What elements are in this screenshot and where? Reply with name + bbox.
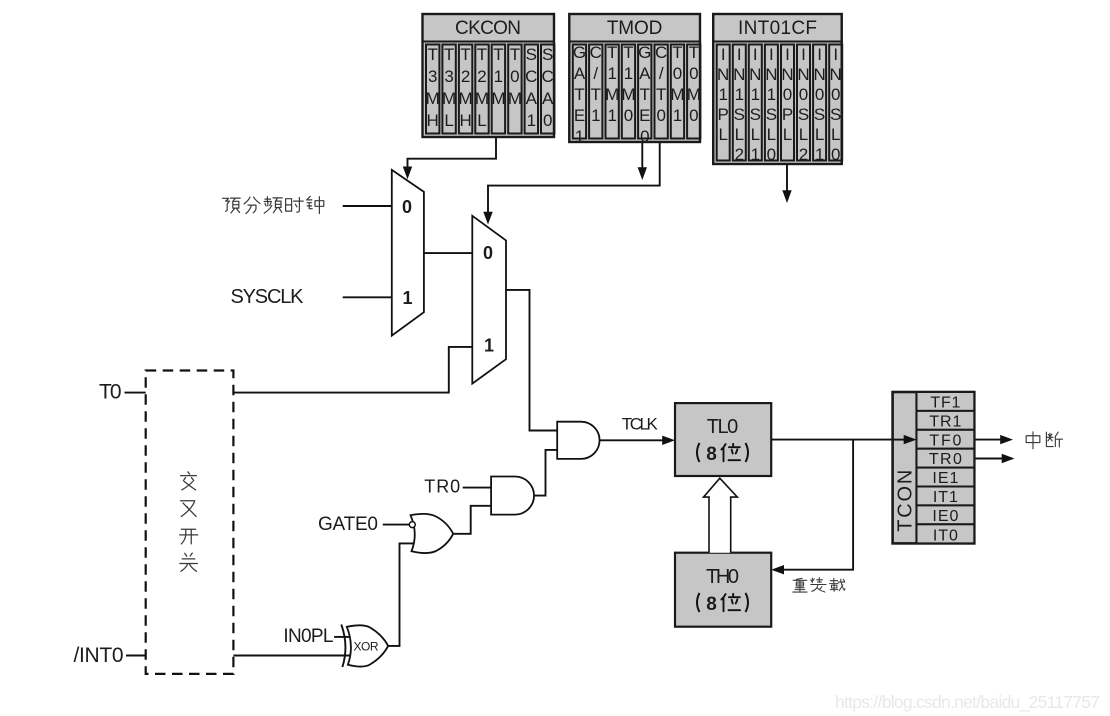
or gate U2 (inverted GATE0 input bubble) xyxy=(411,514,454,553)
wire mux2 out to AND2 top input xyxy=(506,290,557,431)
wire 预分频时钟 to mux1 input 0 xyxy=(343,205,392,207)
svg-text:IN0PL: IN0PL xyxy=(283,626,333,647)
wire T0 from label to crossbar xyxy=(125,392,146,394)
register INT01CF xyxy=(713,14,842,164)
hollow reload arrow TH0 to TL0 xyxy=(704,478,738,553)
wire CKCON to mux1 select xyxy=(408,137,497,168)
mux M2 (counter/timer select, inputs 0/1) xyxy=(472,216,506,384)
svg-text:TMOD: TMOD xyxy=(607,18,663,39)
register TMOD xyxy=(569,14,701,146)
wire TR0 output arrow xyxy=(974,458,1002,460)
svg-text:INT01CF: INT01CF xyxy=(738,18,817,39)
svg-text:GATE1: GATE1 xyxy=(573,43,586,146)
wire XOR out to OR input xyxy=(388,543,413,646)
svg-text:IE0: IE0 xyxy=(932,508,958,525)
svg-text:1: 1 xyxy=(484,336,494,356)
register block TH0 (8-bit) xyxy=(675,553,771,627)
wire /INT0 from crossbar to XOR input xyxy=(233,655,350,657)
svg-text:TR0: TR0 xyxy=(424,477,460,497)
xor gate U1 (XOR) xyxy=(347,625,388,666)
crossbar vertical label 交叉开关 xyxy=(181,472,197,490)
and gate U3 xyxy=(491,477,534,515)
mux M1 (clock select, inputs 0/1) xyxy=(392,170,424,336)
wire IN0PL to XOR input xyxy=(334,636,350,638)
wire INT01CF dangling arrow xyxy=(786,164,788,191)
svg-text:XOR: XOR xyxy=(354,640,379,654)
svg-text:TL0: TL0 xyxy=(707,416,739,438)
wire /INT0 from label to crossbar xyxy=(126,655,146,657)
wire TMOD dangling select arrow xyxy=(641,142,643,168)
register block TL0 (8-bit) xyxy=(675,403,771,476)
svg-text:0: 0 xyxy=(483,243,493,263)
svg-text:https://blog.csdn.net/baidu_25: https://blog.csdn.net/baidu_25117757 xyxy=(835,692,1100,713)
svg-text:IT0: IT0 xyxy=(933,527,958,544)
svg-text:IT1: IT1 xyxy=(933,489,958,506)
wire TMOD to mux2 select xyxy=(488,142,660,213)
svg-text:8: 8 xyxy=(706,444,717,465)
label 预分频时钟 xyxy=(222,196,323,213)
svg-text:TF1: TF1 xyxy=(930,395,960,412)
svg-text:TCLK: TCLK xyxy=(622,415,659,434)
wire mux1 out to mux2 input 0 xyxy=(424,252,472,254)
svg-text:TCON: TCON xyxy=(895,470,917,532)
wire TR0 to AND1 top input xyxy=(463,487,491,489)
svg-text:T0: T0 xyxy=(99,381,122,404)
register TCON (bits TF1 TR1 TF0 TR0 IE1 IT1 IE0 IT0) xyxy=(893,392,975,544)
svg-text:IE1: IE1 xyxy=(932,470,958,487)
wire T0 from crossbar to mux2 input 1 xyxy=(233,347,472,393)
wire TL0 to TCON arrow xyxy=(771,439,904,441)
wire AND2 out TCLK arrow into TL0 xyxy=(600,439,663,441)
wire OR out to AND1 bottom input xyxy=(453,506,491,534)
svg-text:1: 1 xyxy=(402,288,412,308)
svg-text:TH0: TH0 xyxy=(706,566,739,588)
redraw TL0-TCON wire over TCON strip xyxy=(893,439,905,441)
crossbar switch box (dashed) xyxy=(146,371,234,674)
svg-text:TF0: TF0 xyxy=(929,432,961,449)
label 中断 xyxy=(1026,432,1040,449)
svg-text:TR0: TR0 xyxy=(929,451,962,468)
svg-text:GATE0: GATE0 xyxy=(638,43,651,146)
register CKCON xyxy=(423,14,555,137)
wire TF0 to 中断 arrow xyxy=(974,439,1001,441)
label 重装载 xyxy=(793,578,807,592)
svg-text:SYSCLK: SYSCLK xyxy=(231,286,305,308)
wire AND1 out to AND2 bottom input xyxy=(534,450,557,496)
svg-text:/INT0: /INT0 xyxy=(74,644,124,667)
svg-text:GATE0: GATE0 xyxy=(318,514,378,535)
svg-text:TR1: TR1 xyxy=(929,413,961,430)
and gate U4 xyxy=(557,422,599,459)
wire SYSCLK to mux1 input 1 xyxy=(343,296,392,298)
svg-text:8: 8 xyxy=(706,594,717,615)
wire GATE0 to OR bubble xyxy=(383,524,409,526)
wire reload branch TL0 line down to TH0 xyxy=(783,440,853,570)
svg-text:CKCON: CKCON xyxy=(455,18,521,39)
svg-text:0: 0 xyxy=(402,197,412,217)
